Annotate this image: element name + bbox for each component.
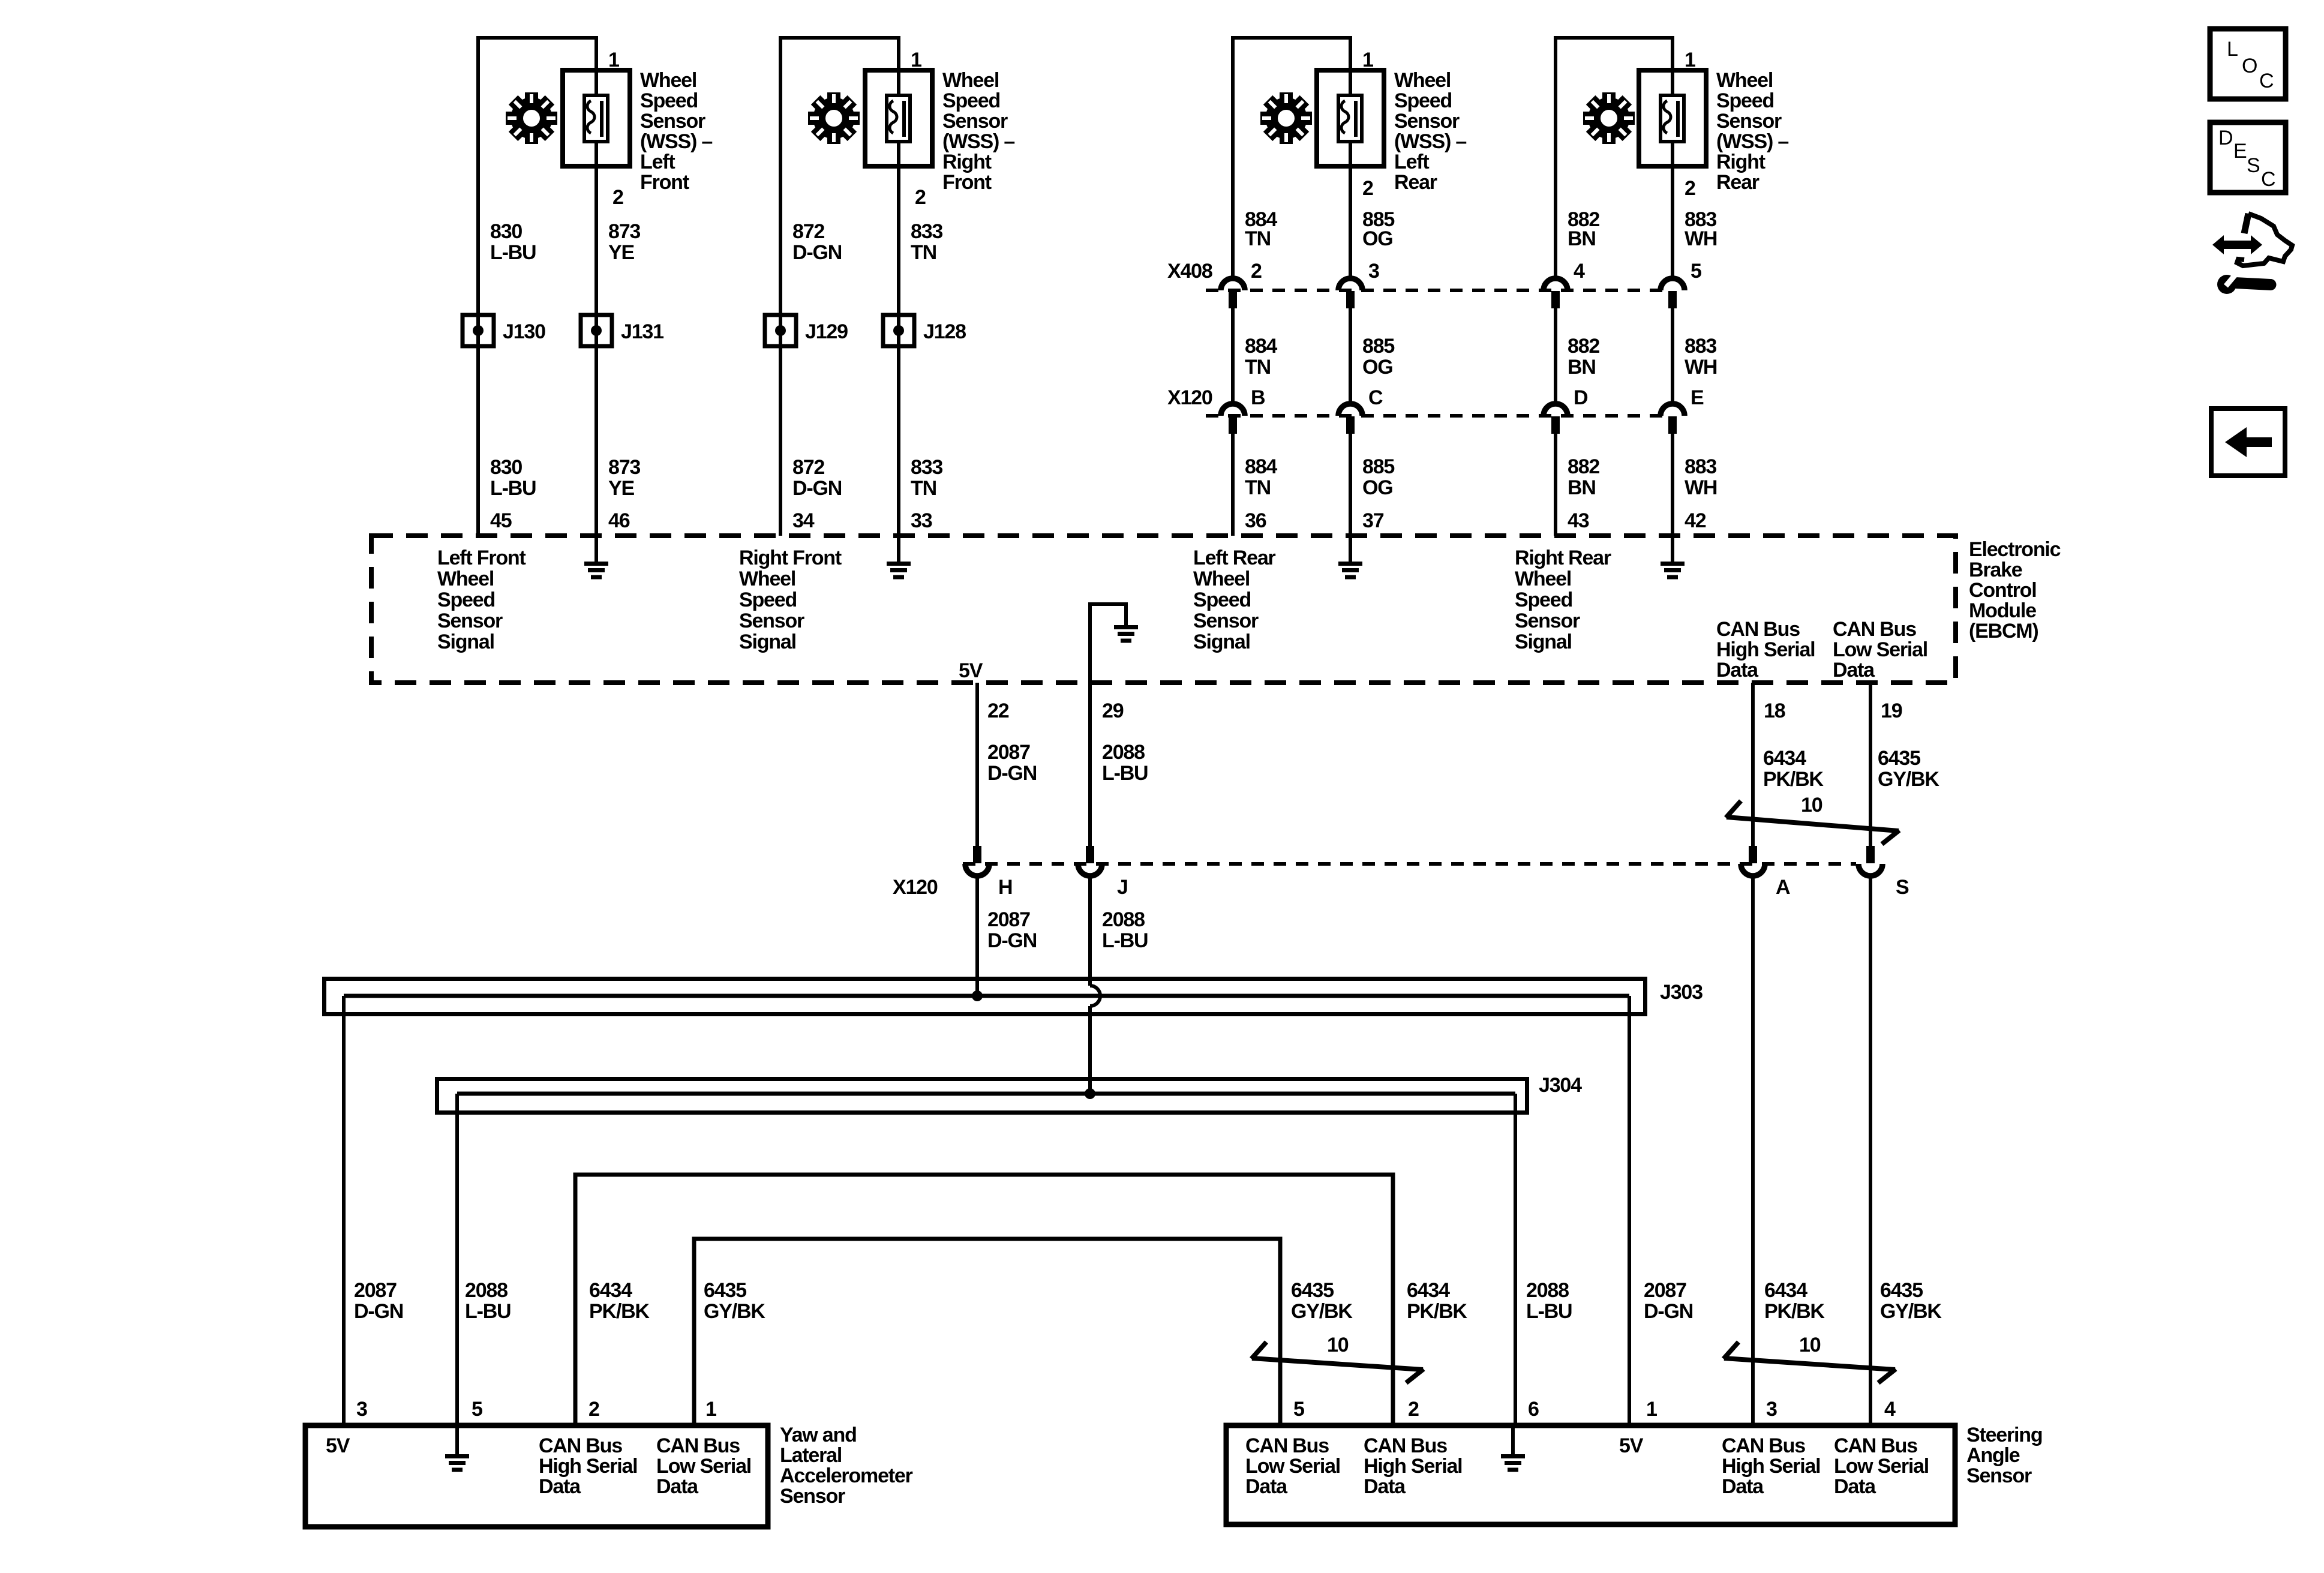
svg-text:5: 5 <box>1691 260 1701 283</box>
svg-text:J131: J131 <box>621 320 663 343</box>
svg-text:L-BU: L-BU <box>465 1300 511 1323</box>
svg-text:Data: Data <box>539 1475 581 1498</box>
svg-text:Low Serial: Low Serial <box>656 1455 751 1478</box>
svg-text:885: 885 <box>1362 455 1394 478</box>
svg-text:OG: OG <box>1362 356 1393 379</box>
svg-text:TN: TN <box>1245 227 1271 250</box>
svg-text:TN: TN <box>911 477 936 500</box>
svg-text:Wheel: Wheel <box>640 69 696 92</box>
svg-text:2087: 2087 <box>987 908 1030 931</box>
svg-text:Wheel: Wheel <box>739 568 795 590</box>
svg-text:4: 4 <box>1574 260 1585 283</box>
svg-text:Sensor: Sensor <box>640 110 705 133</box>
svg-text:46: 46 <box>608 509 630 532</box>
svg-text:6: 6 <box>1528 1398 1539 1421</box>
svg-text:2087: 2087 <box>354 1279 397 1302</box>
svg-text:882: 882 <box>1568 455 1599 478</box>
svg-text:WH: WH <box>1685 356 1717 379</box>
svg-text:High Serial: High Serial <box>1722 1455 1820 1478</box>
svg-text:Wheel: Wheel <box>942 69 999 92</box>
svg-text:5V: 5V <box>1619 1434 1644 1457</box>
svg-text:Wheel: Wheel <box>1515 568 1571 590</box>
svg-text:873: 873 <box>608 456 640 479</box>
svg-text:(WSS) –: (WSS) – <box>640 130 712 153</box>
svg-text:Signal: Signal <box>1193 631 1250 653</box>
svg-text:3: 3 <box>356 1398 367 1421</box>
svg-text:CAN Bus: CAN Bus <box>1834 1434 1917 1457</box>
svg-text:Sensor: Sensor <box>1716 110 1782 133</box>
svg-text:Speed: Speed <box>1716 89 1774 112</box>
svg-text:BN: BN <box>1568 227 1596 250</box>
svg-text:833: 833 <box>911 220 942 243</box>
svg-text:Speed: Speed <box>1515 589 1572 611</box>
svg-text:830: 830 <box>490 220 522 243</box>
svg-text:5: 5 <box>472 1398 482 1421</box>
svg-text:Sensor: Sensor <box>942 110 1008 133</box>
svg-text:1: 1 <box>1362 49 1373 71</box>
svg-text:Data: Data <box>1833 659 1875 682</box>
svg-text:Data: Data <box>656 1475 699 1498</box>
svg-text:872: 872 <box>792 220 824 243</box>
svg-text:L: L <box>2227 38 2238 61</box>
svg-text:Sensor: Sensor <box>1966 1464 2032 1487</box>
svg-text:TN: TN <box>1245 476 1271 499</box>
svg-text:CAN Bus: CAN Bus <box>1716 618 1800 641</box>
svg-text:BN: BN <box>1568 476 1596 499</box>
svg-text:X408: X408 <box>1167 260 1212 283</box>
svg-text:Electronic: Electronic <box>1969 538 2061 561</box>
svg-text:GY/BK: GY/BK <box>704 1300 765 1323</box>
svg-text:Signal: Signal <box>1515 631 1572 653</box>
svg-text:Data: Data <box>1364 1475 1406 1498</box>
svg-text:2087: 2087 <box>987 741 1030 764</box>
svg-text:GY/BK: GY/BK <box>1880 1300 1942 1323</box>
svg-text:2: 2 <box>1362 177 1373 200</box>
svg-text:CAN Bus: CAN Bus <box>539 1434 622 1457</box>
svg-text:43: 43 <box>1568 509 1589 532</box>
svg-text:884: 884 <box>1245 335 1277 358</box>
svg-text:6435: 6435 <box>1878 747 1920 770</box>
svg-text:OG: OG <box>1362 476 1393 499</box>
svg-text:Yaw and: Yaw and <box>780 1424 857 1446</box>
svg-text:5: 5 <box>1293 1398 1304 1421</box>
svg-text:Right Front: Right Front <box>739 547 842 569</box>
svg-text:45: 45 <box>490 509 512 532</box>
svg-text:Control: Control <box>1969 579 2036 602</box>
svg-text:2: 2 <box>1251 260 1262 283</box>
svg-text:(EBCM): (EBCM) <box>1969 620 2038 643</box>
svg-text:Data: Data <box>1722 1475 1764 1498</box>
svg-text:CAN Bus: CAN Bus <box>1722 1434 1805 1457</box>
svg-text:Left Front: Left Front <box>437 547 526 569</box>
svg-text:1: 1 <box>705 1398 716 1421</box>
svg-text:High Serial: High Serial <box>1716 638 1815 661</box>
svg-text:J130: J130 <box>503 320 545 343</box>
svg-text:3: 3 <box>1766 1398 1777 1421</box>
svg-text:6434: 6434 <box>1407 1279 1450 1302</box>
svg-text:Speed: Speed <box>1394 89 1452 112</box>
svg-text:B: B <box>1251 386 1265 409</box>
svg-text:E: E <box>1691 386 1704 409</box>
svg-text:D-GN: D-GN <box>1644 1300 1693 1323</box>
svg-text:High Serial: High Serial <box>539 1455 637 1478</box>
svg-text:34: 34 <box>792 509 815 532</box>
svg-text:6434: 6434 <box>1763 747 1806 770</box>
svg-text:Left Rear: Left Rear <box>1193 547 1276 569</box>
svg-text:Left: Left <box>1394 151 1429 173</box>
svg-text:2: 2 <box>915 186 926 209</box>
svg-text:Wheel: Wheel <box>1716 69 1773 92</box>
svg-text:Low Serial: Low Serial <box>1834 1455 1929 1478</box>
svg-text:Signal: Signal <box>437 631 494 653</box>
svg-text:Rear: Rear <box>1394 171 1437 194</box>
svg-text:883: 883 <box>1685 455 1716 478</box>
svg-text:Accelerometer: Accelerometer <box>780 1464 913 1487</box>
svg-text:(WSS) –: (WSS) – <box>942 130 1014 153</box>
svg-text:882: 882 <box>1568 335 1599 358</box>
svg-text:6434: 6434 <box>589 1279 632 1302</box>
svg-text:Sensor: Sensor <box>739 610 804 632</box>
svg-text:PK/BK: PK/BK <box>1407 1300 1467 1323</box>
svg-text:E: E <box>2233 140 2247 163</box>
svg-text:37: 37 <box>1362 509 1384 532</box>
svg-text:Right Rear: Right Rear <box>1515 547 1611 569</box>
svg-text:2: 2 <box>1408 1398 1419 1421</box>
svg-text:883: 883 <box>1685 335 1716 358</box>
svg-text:TN: TN <box>911 241 936 264</box>
svg-text:29: 29 <box>1102 700 1124 722</box>
svg-text:873: 873 <box>608 220 640 243</box>
svg-text:(WSS) –: (WSS) – <box>1394 130 1466 153</box>
svg-text:33: 33 <box>911 509 932 532</box>
svg-text:Sensor: Sensor <box>1515 610 1580 632</box>
svg-text:6434: 6434 <box>1764 1279 1807 1302</box>
svg-text:885: 885 <box>1362 335 1394 358</box>
svg-text:Left: Left <box>640 151 675 173</box>
svg-text:X120: X120 <box>893 876 938 899</box>
svg-text:L-BU: L-BU <box>490 477 536 500</box>
svg-text:J304: J304 <box>1539 1074 1582 1097</box>
svg-text:PK/BK: PK/BK <box>1764 1300 1825 1323</box>
svg-text:Rear: Rear <box>1716 171 1759 194</box>
svg-text:PK/BK: PK/BK <box>589 1300 650 1323</box>
svg-text:Signal: Signal <box>739 631 796 653</box>
svg-text:L-BU: L-BU <box>490 241 536 264</box>
svg-text:D-GN: D-GN <box>792 241 842 264</box>
svg-text:TN: TN <box>1245 356 1271 379</box>
svg-text:833: 833 <box>911 456 942 479</box>
svg-text:18: 18 <box>1764 700 1785 722</box>
svg-text:6435: 6435 <box>704 1279 746 1302</box>
svg-text:D: D <box>1574 386 1588 409</box>
svg-text:A: A <box>1776 876 1790 899</box>
svg-text:6435: 6435 <box>1291 1279 1334 1302</box>
svg-text:5V: 5V <box>326 1434 350 1457</box>
svg-text:36: 36 <box>1245 509 1266 532</box>
svg-text:Wheel: Wheel <box>1193 568 1250 590</box>
svg-text:1: 1 <box>911 49 921 71</box>
svg-text:J: J <box>1117 876 1128 899</box>
svg-text:High Serial: High Serial <box>1364 1455 1462 1478</box>
svg-text:10: 10 <box>1327 1334 1349 1356</box>
svg-text:S: S <box>1896 876 1909 899</box>
svg-text:GY/BK: GY/BK <box>1878 768 1939 791</box>
svg-text:C: C <box>2259 70 2274 92</box>
svg-text:2087: 2087 <box>1644 1279 1686 1302</box>
svg-text:Sensor: Sensor <box>1193 610 1259 632</box>
svg-text:Right: Right <box>1716 151 1765 173</box>
svg-text:Speed: Speed <box>739 589 797 611</box>
svg-text:2088: 2088 <box>465 1279 508 1302</box>
svg-text:1: 1 <box>608 49 619 71</box>
svg-text:GY/BK: GY/BK <box>1291 1300 1353 1323</box>
svg-text:Wheel: Wheel <box>1394 69 1451 92</box>
svg-text:CAN Bus: CAN Bus <box>656 1434 740 1457</box>
svg-text:BN: BN <box>1568 356 1596 379</box>
svg-text:S: S <box>2247 154 2260 177</box>
svg-text:884: 884 <box>1245 455 1277 478</box>
svg-text:Data: Data <box>1834 1475 1876 1498</box>
svg-text:6435: 6435 <box>1880 1279 1923 1302</box>
svg-text:CAN Bus: CAN Bus <box>1245 1434 1329 1457</box>
svg-text:2: 2 <box>1685 177 1695 200</box>
svg-text:D-GN: D-GN <box>987 762 1037 785</box>
svg-text:2088: 2088 <box>1102 908 1145 931</box>
svg-text:Front: Front <box>640 171 689 194</box>
svg-text:D-GN: D-GN <box>987 929 1037 952</box>
svg-text:2: 2 <box>612 186 623 209</box>
svg-text:Lateral: Lateral <box>780 1444 842 1467</box>
svg-text:YE: YE <box>608 241 634 264</box>
svg-text:Sensor: Sensor <box>437 610 503 632</box>
svg-text:(WSS) –: (WSS) – <box>1716 130 1788 153</box>
svg-text:Sensor: Sensor <box>780 1485 845 1508</box>
svg-text:Angle: Angle <box>1966 1444 2020 1467</box>
svg-text:4: 4 <box>1884 1398 1896 1421</box>
svg-text:Right: Right <box>942 151 992 173</box>
svg-text:CAN Bus: CAN Bus <box>1833 618 1916 641</box>
svg-text:2088: 2088 <box>1526 1279 1569 1302</box>
svg-text:Low Serial: Low Serial <box>1245 1455 1340 1478</box>
svg-text:Brake: Brake <box>1969 559 2022 581</box>
svg-text:L-BU: L-BU <box>1526 1300 1572 1323</box>
svg-text:Module: Module <box>1969 599 2036 622</box>
svg-text:Speed: Speed <box>942 89 1000 112</box>
svg-text:1: 1 <box>1685 49 1695 71</box>
svg-text:830: 830 <box>490 456 522 479</box>
svg-text:L-BU: L-BU <box>1102 762 1148 785</box>
svg-text:3: 3 <box>1368 260 1379 283</box>
svg-text:D-GN: D-GN <box>792 477 842 500</box>
svg-text:19: 19 <box>1881 700 1902 722</box>
svg-text:Low Serial: Low Serial <box>1833 638 1927 661</box>
svg-text:1: 1 <box>1646 1398 1657 1421</box>
svg-text:Data: Data <box>1716 659 1759 682</box>
svg-text:J128: J128 <box>923 320 966 343</box>
svg-text:10: 10 <box>1799 1334 1821 1356</box>
svg-text:Wheel: Wheel <box>437 568 494 590</box>
svg-text:Sensor: Sensor <box>1394 110 1460 133</box>
svg-text:X120: X120 <box>1167 386 1212 409</box>
svg-text:10: 10 <box>1801 794 1822 816</box>
svg-text:CAN Bus: CAN Bus <box>1364 1434 1447 1457</box>
svg-text:2088: 2088 <box>1102 741 1145 764</box>
svg-text:L-BU: L-BU <box>1102 929 1148 952</box>
svg-text:Speed: Speed <box>437 589 495 611</box>
svg-text:J303: J303 <box>1660 981 1703 1004</box>
svg-text:Data: Data <box>1245 1475 1288 1498</box>
svg-text:WH: WH <box>1685 227 1717 250</box>
svg-text:C: C <box>2261 168 2276 191</box>
svg-text:D: D <box>2218 127 2233 149</box>
svg-text:42: 42 <box>1685 509 1706 532</box>
svg-text:YE: YE <box>608 477 634 500</box>
svg-text:H: H <box>998 876 1012 899</box>
svg-text:Front: Front <box>942 171 992 194</box>
svg-text:22: 22 <box>987 700 1009 722</box>
svg-text:872: 872 <box>792 456 824 479</box>
svg-text:O: O <box>2242 55 2257 77</box>
svg-text:D-GN: D-GN <box>354 1300 403 1323</box>
svg-text:C: C <box>1368 386 1383 409</box>
svg-text:Speed: Speed <box>1193 589 1251 611</box>
svg-text:Speed: Speed <box>640 89 698 112</box>
svg-text:J129: J129 <box>805 320 848 343</box>
svg-text:PK/BK: PK/BK <box>1763 768 1824 791</box>
svg-text:2: 2 <box>588 1398 599 1421</box>
svg-text:WH: WH <box>1685 476 1717 499</box>
svg-text:Steering: Steering <box>1966 1424 2042 1446</box>
svg-text:5V: 5V <box>959 659 983 682</box>
svg-text:OG: OG <box>1362 227 1393 250</box>
